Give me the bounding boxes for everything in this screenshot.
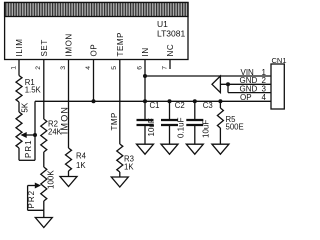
svg-text:OP: OP — [90, 44, 99, 57]
svg-text:1K: 1K — [76, 161, 86, 170]
svg-text:ILIM: ILIM — [15, 39, 24, 57]
svg-text:C3: C3 — [203, 101, 213, 110]
svg-text:PR1: PR1 — [24, 139, 33, 158]
svg-text:R4: R4 — [76, 152, 87, 161]
svg-text:U1: U1 — [157, 19, 168, 29]
svg-text:C1: C1 — [150, 101, 160, 110]
svg-text:6: 6 — [136, 66, 143, 70]
svg-text:1: 1 — [10, 66, 17, 70]
svg-text:IN: IN — [141, 47, 150, 56]
svg-text:2: 2 — [35, 66, 42, 70]
svg-text:OP: OP — [240, 93, 252, 102]
svg-text:1.5K: 1.5K — [25, 86, 42, 95]
svg-text:4: 4 — [85, 66, 92, 70]
svg-text:C2: C2 — [175, 101, 185, 110]
svg-text:10uF: 10uF — [147, 118, 156, 136]
svg-text:100K: 100K — [47, 170, 56, 189]
svg-text:5: 5 — [111, 66, 118, 70]
svg-text:4: 4 — [262, 93, 267, 102]
svg-text:NC: NC — [166, 44, 175, 57]
svg-text:1K: 1K — [124, 163, 134, 172]
svg-text:PR2: PR2 — [27, 190, 36, 209]
svg-text:IMON: IMON — [65, 33, 74, 56]
svg-text:7: 7 — [161, 66, 168, 70]
svg-text:10uF: 10uF — [202, 120, 211, 138]
svg-text:5K: 5K — [21, 102, 30, 112]
svg-text:CN1: CN1 — [272, 56, 287, 65]
svg-text:3: 3 — [60, 66, 67, 70]
svg-text:0.1uF: 0.1uF — [177, 117, 186, 138]
svg-text:500E: 500E — [226, 123, 244, 132]
svg-text:TEMP: TEMP — [116, 32, 125, 57]
svg-text:TMP: TMP — [110, 112, 119, 130]
svg-text:IMON: IMON — [59, 106, 69, 134]
svg-text:SET: SET — [40, 39, 49, 56]
svg-text:LT3081: LT3081 — [157, 29, 185, 39]
